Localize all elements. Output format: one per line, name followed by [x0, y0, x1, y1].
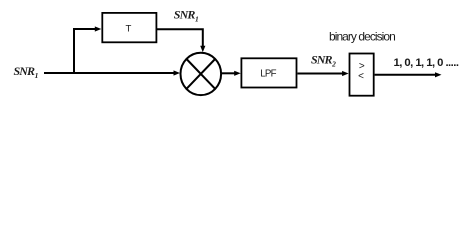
- wire LPF to comparator with arrowhead: [298, 71, 349, 76]
- wire main input line: [44, 72, 174, 74]
- block delay T: [102, 13, 156, 42]
- node branch junction: [73, 29, 75, 74]
- svg-text:1, 0, 1, 1, 0 .....: 1, 0, 1, 1, 0 .....: [394, 57, 459, 69]
- svg-text:SNR1: SNR1: [174, 8, 198, 24]
- svg-text:binary decision: binary decision: [329, 30, 395, 44]
- svg-text:T: T: [125, 24, 131, 35]
- svg-text:LPF: LPF: [260, 68, 276, 79]
- block comparator threshold: [350, 54, 374, 96]
- svg-text:SNR1: SNR1: [14, 64, 38, 80]
- multiplier mixer: [181, 53, 222, 95]
- wire branch to delay block with arrowhead: [73, 26, 101, 31]
- wire into multiplier arrowhead: [174, 70, 181, 75]
- block LPF: [241, 58, 296, 87]
- wire output with arrowhead: [375, 72, 442, 77]
- wire delay block to multiplier with arrowhead: [157, 29, 205, 52]
- wire multiplier to LPF with arrowhead: [221, 71, 241, 76]
- svg-text:<: <: [358, 71, 364, 82]
